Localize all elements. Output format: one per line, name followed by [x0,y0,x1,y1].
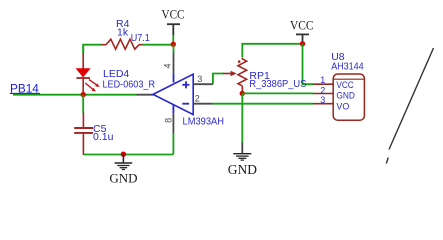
svg-text:VO: VO [336,102,349,112]
IC U8 pin 3 lead [313,103,333,105]
label RP1 [249,70,270,82]
svg-text:AH3144: AH3144 [331,60,364,72]
svg-text:LED-0603_R: LED-0603_R [103,78,156,90]
label GND2 [228,162,257,177]
svg-text:GND: GND [228,162,257,177]
pin number 3 [197,74,202,84]
node junction PB14-LED-C5 [81,92,86,97]
resistor R4 zigzag [106,39,139,49]
svg-text:R_3386P_US: R_3386P_US [249,78,306,90]
label GND1 [109,170,137,185]
wire pin3 to RP1 wiper [213,74,224,85]
node junction VCC-R4 [171,42,176,47]
svg-text:1: 1 [320,75,325,85]
potentiometer RP1 zigzag [238,59,247,86]
svg-text:0.1u: 0.1u [93,131,114,143]
label 1k [117,27,129,39]
pin number 3 [320,95,325,105]
potentiometer RP1 top lead [241,58,243,60]
node junction GND1 [121,152,126,157]
svg-text:1k: 1k [117,27,129,39]
svg-text:3: 3 [320,95,325,105]
node junction VCC right [300,41,305,46]
pin name VCC [336,80,354,90]
wire VCC down to U8 pin1 [303,44,314,84]
label LED4 [103,68,129,80]
wire op-amp pin8 rise [172,104,174,155]
IC U8 body [333,74,364,120]
svg-text:3: 3 [197,74,202,84]
pin name GND [336,90,355,100]
label LM393AH [183,116,225,128]
wire diagonal annotation line [386,48,433,164]
pin number 4 [163,63,173,68]
resistor R1 leads [102,44,143,46]
svg-text:VCC: VCC [162,7,185,22]
wire RP1 junction down to GND2 [241,93,243,142]
pin number 2 [195,94,200,104]
wire bottom gnd run [83,154,173,156]
wire R4 left vertical [83,45,102,54]
op-amp U1 LM393AH triangle [153,74,193,114]
svg-text:VCC: VCC [290,17,314,32]
wire op-amp pin3 lead [194,83,213,85]
label R_3386P_US [249,78,306,90]
wire RP1 junction to U8 pin2 [242,92,313,94]
ground GND1 symbol [115,154,133,170]
svg-text:8: 8 [163,118,173,123]
potentiometer RP1 wiper arrow [223,71,237,77]
node PB14 net label [10,84,40,96]
label R4 [116,18,130,30]
node junction RP1 bottom [240,91,245,96]
potentiometer RP1 bottom lead [241,86,243,94]
label AH3144 [331,60,364,72]
pin name VO [336,102,349,112]
ground GND2 symbol [233,142,251,160]
svg-text:GND: GND [336,90,355,100]
label U8 [331,51,345,63]
LED LED4 cathode bar [76,77,90,79]
wire R4 right to VCC junction [143,44,174,46]
LED D LED4 anode lead [82,45,84,69]
capacitor C5 plates [74,128,93,133]
op-amp minus input marker [182,103,189,105]
IC U8 pin 1 lead [313,83,333,85]
pin number 2 [320,85,325,95]
power VCC left [162,7,185,44]
pin number 8 [163,118,173,123]
LED LED4 emission arrow 1 [89,80,100,87]
label LED-0603_R [103,78,156,90]
svg-text:2: 2 [320,85,325,95]
wire VO net [213,103,314,105]
wire op-amp pin2 lead [194,103,213,105]
power VCC right [290,17,314,43]
svg-text:U7.1: U7.1 [131,32,150,44]
potentiometer RP1 pin1 marker dot [238,60,241,63]
wire VCC right rail to RP1 top [242,44,302,57]
LED LED4 cathode lead [82,78,84,95]
IC U8 pin 2 lead [313,93,333,95]
wire op-amp pin4 drop [173,44,175,82]
capacitor C5 bottom lead [82,134,84,155]
svg-text:2: 2 [195,94,200,104]
label C5 [93,123,107,135]
pin number 1 [320,75,325,85]
svg-text:LM393AH: LM393AH [183,116,225,128]
wire op-amp output lead [137,94,154,96]
svg-text:GND: GND [109,170,137,185]
svg-text:VCC: VCC [336,80,354,90]
label U7.1 [131,32,150,44]
wire PB14 horizontal [13,94,137,96]
LED LED4 emission arrow 2 [85,83,96,91]
op-amp plus input marker [182,81,189,88]
label 0.1u [93,131,114,143]
wire junction to C5 [82,95,84,113]
capacitor C5 top lead [82,113,84,128]
svg-text:4: 4 [163,63,173,68]
LED LED4 triangle [76,69,89,77]
